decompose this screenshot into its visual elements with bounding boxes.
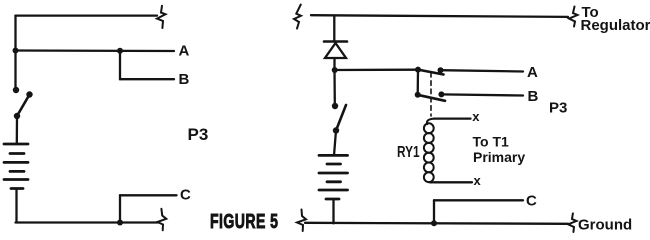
break symbol bottom of left circuit xyxy=(157,209,166,231)
switch S1 arm tip dot xyxy=(26,91,32,97)
break symbol top-left of right circuit xyxy=(294,5,301,29)
svg-text:A: A xyxy=(527,64,538,81)
switch S2 pivot dot xyxy=(333,127,339,133)
wire: vertical branch to C (right) xyxy=(433,200,435,223)
switch S2 fixed contact dot xyxy=(332,103,338,109)
wire: diode to junction xyxy=(333,58,335,70)
svg-text:B: B xyxy=(528,88,539,105)
wire: vertical branch to B (left) xyxy=(119,51,121,79)
wire: switch to battery (left) xyxy=(16,116,19,144)
svg-text:x: x xyxy=(472,109,480,124)
wire: vertical branch to C (left) xyxy=(119,195,121,222)
relay RY1 coil top lead xyxy=(434,117,471,119)
break symbol bottom-right (Ground) xyxy=(568,213,577,232)
switch S1 arm xyxy=(17,95,30,117)
relay contact upper arm xyxy=(418,70,444,75)
wire: node C horizontal (right) xyxy=(434,199,523,201)
svg-text:To T1: To T1 xyxy=(473,134,510,150)
break symbol bottom-left of right circuit xyxy=(297,210,306,232)
wire: node B horizontal (right) xyxy=(441,94,523,95)
relay contact lower arm xyxy=(418,95,446,101)
switch S1 pivot dot xyxy=(14,113,20,119)
dashed mechanical link to relay coil xyxy=(430,73,432,117)
relay contact upper left dot xyxy=(415,67,421,73)
relay contact lower right dot xyxy=(438,91,444,97)
switch S2 arm xyxy=(336,105,346,131)
node junction dot A/B branch xyxy=(117,48,123,54)
svg-text:Primary: Primary xyxy=(473,149,525,165)
svg-text:x: x xyxy=(474,173,482,188)
wire: top line down to diode xyxy=(333,16,335,42)
wire: contact link vertical xyxy=(417,70,420,95)
svg-text:Ground: Ground xyxy=(578,216,632,233)
svg-text:A: A xyxy=(179,43,190,60)
wire: node A horizontal (left) xyxy=(16,49,175,52)
wire: node C horizontal (left) xyxy=(120,194,177,196)
node junction dot C branch (right) xyxy=(431,220,437,226)
wire: node B horizontal (left) xyxy=(120,78,174,80)
wire: battery to bottom line (left) xyxy=(16,189,159,223)
node junction dot C branch (left) xyxy=(117,220,123,226)
svg-text:RY1: RY1 xyxy=(397,142,420,160)
break symbol top of left circuit xyxy=(157,6,166,28)
wire: battery to ground line (right) xyxy=(332,199,334,223)
relay contact upper right dot xyxy=(438,67,444,73)
svg-text:P3: P3 xyxy=(549,100,567,117)
wire: node A horizontal (right) xyxy=(441,70,524,71)
svg-text:B: B xyxy=(179,71,190,88)
svg-text:P3: P3 xyxy=(188,125,209,144)
relay RY1 coil bottom lead xyxy=(434,181,472,183)
diode CR1 cathode bar xyxy=(324,40,347,43)
wire: junction to relay contact (upper) xyxy=(335,69,418,72)
svg-text:Regulator: Regulator xyxy=(581,17,650,34)
node junction dot at left vertical / A xyxy=(13,48,19,54)
relay contact lower left dot xyxy=(415,92,421,98)
diode CR1 triangle xyxy=(325,43,346,58)
wire: right circuit top horizontal to regulator xyxy=(311,15,568,17)
break symbol top-right (To Regulator) xyxy=(569,7,578,27)
wire: left circuit top horizontal xyxy=(16,14,158,16)
relay RY1 coil loops xyxy=(424,119,434,183)
node junction dot below diode xyxy=(332,67,338,73)
switch S1 fixed contact dot xyxy=(13,87,19,93)
wire: left circuit left vertical xyxy=(14,16,16,89)
svg-text:C: C xyxy=(526,193,537,210)
battery BT2 plates xyxy=(319,155,348,199)
svg-text:FIGURE 5: FIGURE 5 xyxy=(210,210,278,233)
wire: ground line horizontal xyxy=(305,223,568,224)
wire: switch to battery (right) xyxy=(334,131,336,156)
wire: junction down to switch (right) xyxy=(333,70,336,103)
battery BT1 plates xyxy=(4,144,28,189)
svg-text:C: C xyxy=(180,187,191,204)
